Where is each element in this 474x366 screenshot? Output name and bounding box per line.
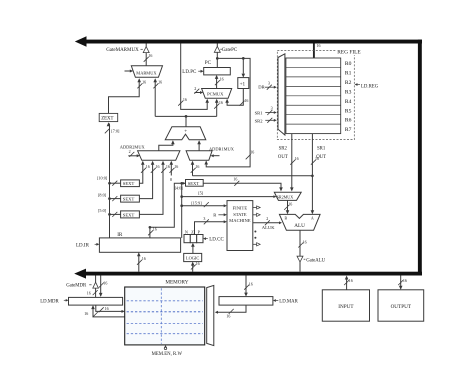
- wire: bus down to OUTPUT: [400, 275, 402, 288]
- svg-text:+: +: [184, 129, 187, 135]
- svg-text:DR: DR: [258, 84, 265, 89]
- component +1 incrementer box: [238, 78, 249, 89]
- svg-text:SEXT: SEXT: [123, 212, 135, 217]
- wire: IR tap vertical for [5] and [15:9]: [181, 183, 183, 238]
- LD.MAR control label: [273, 299, 276, 302]
- node: +1 branch junction: [242, 57, 245, 60]
- svg-text:16: 16: [196, 261, 200, 266]
- wire: bus tap down to PCMUX left input: [181, 43, 208, 109]
- svg-text:16: 16: [349, 278, 353, 283]
- register MDR box: [69, 297, 123, 305]
- svg-text:R3: R3: [345, 89, 352, 95]
- svg-text:[5:0]: [5:0]: [98, 208, 107, 213]
- svg-text:R6: R6: [345, 118, 352, 124]
- svg-text:16: 16: [250, 149, 254, 154]
- svg-text:REG FILE: REG FILE: [337, 49, 361, 55]
- PCMUX select stub with 2: [195, 92, 201, 94]
- svg-text:GateMDR: GateMDR: [66, 283, 87, 288]
- memory address port shape: [207, 285, 214, 345]
- wire: IR[7:0] into ZEXT: [107, 122, 111, 126]
- svg-text:ZEXT: ZEXT: [101, 117, 113, 122]
- wire: NZP to finite state machine (3): [195, 222, 225, 235]
- svg-text:16: 16: [403, 278, 407, 283]
- wire: MARMUX output up through GateMARMUX to bus: [145, 53, 147, 66]
- svg-text:SR2MUX: SR2MUX: [277, 194, 294, 199]
- wire: bus down into register file: [313, 43, 315, 58]
- device INPUT box: [322, 290, 369, 321]
- memory internal dashed line 1: [127, 300, 203, 302]
- svg-text:ADDR1MUX: ADDR1MUX: [209, 146, 235, 151]
- memory internal dashed line 2 (data row): [127, 311, 203, 313]
- slash 16 on MARMUX output: [144, 57, 149, 62]
- wire: IR tap 16-bit up and over to SEXT[4:0] line: [150, 183, 181, 238]
- tri-state buffer GateALU: [297, 256, 303, 262]
- svg-text:MARMUX: MARMUX: [136, 70, 157, 75]
- svg-text:PCMUX: PCMUX: [207, 92, 224, 97]
- wire: PC output up through GatePC to bus: [216, 52, 218, 67]
- svg-text:LD.IR: LD.IR: [76, 243, 90, 248]
- wire: ALUK control to ALU (2): [253, 222, 280, 224]
- FSM control ellipsis dots: [254, 231, 256, 233]
- register PC box: [204, 68, 231, 75]
- svg-text:GatePC: GatePC: [222, 48, 238, 53]
- mux ADDR2MUX: [138, 151, 180, 161]
- memory internal dashed line 4: [127, 333, 203, 335]
- svg-text:SEXT: SEXT: [123, 181, 135, 186]
- register SEXT [5:0] box: [110, 213, 121, 215]
- svg-text:ALUK: ALUK: [262, 225, 275, 230]
- svg-text:OUTPUT: OUTPUT: [391, 304, 412, 310]
- FSM control output stub 1: [253, 207, 257, 209]
- wire: ADDR2MUX output to adder left input: [159, 141, 173, 151]
- svg-text:SR1: SR1: [317, 146, 326, 151]
- svg-text:SR2: SR2: [279, 146, 288, 151]
- wire: MEMORY read data to MDR: [93, 306, 125, 317]
- svg-text:+1: +1: [240, 81, 246, 87]
- logic block LOGIC: [184, 253, 202, 261]
- svg-text:GateALU: GateALU: [306, 258, 325, 263]
- svg-text:[8:0]: [8:0]: [98, 192, 107, 197]
- svg-text:MEMORY: MEMORY: [165, 280, 188, 286]
- finite state machine box: [227, 201, 253, 251]
- wire: bus up into IR bottom: [138, 254, 140, 272]
- svg-text:16: 16: [87, 290, 91, 295]
- svg-text:ALU: ALU: [294, 223, 305, 229]
- svg-text:[4:0]: [4:0]: [175, 186, 184, 191]
- wire: ADDR1MUX output to adder right input: [198, 141, 200, 151]
- svg-text:16: 16: [166, 164, 170, 169]
- svg-text:2: 2: [129, 149, 131, 154]
- svg-text:R7: R7: [345, 127, 352, 133]
- bus: top horizontal segment of system bus: [83, 40, 422, 44]
- alu ALU: [279, 214, 320, 230]
- wire: adder output line to PCMUX middle input: [216, 100, 218, 116]
- svg-text:[7:0]: [7:0]: [111, 129, 120, 134]
- register file write-port column: [278, 54, 285, 135]
- svg-text:16: 16: [219, 100, 223, 105]
- wire: bus up into LOGIC: [192, 263, 194, 272]
- svg-text:16: 16: [303, 239, 307, 244]
- register file dashed enclosure REG FILE: [277, 50, 354, 139]
- wire: IR output vertical to ZEXT and SEXT taps: [109, 124, 111, 238]
- mux PCMUX: [202, 89, 232, 99]
- ADDR2MUX select stub with 2: [128, 155, 137, 157]
- svg-text:16: 16: [249, 282, 253, 287]
- wire: ALU output down through GateALU to bus: [299, 230, 301, 256]
- memory internal dashed line 3: [127, 322, 203, 324]
- wire: MDR write data to MEMORY: [96, 305, 124, 311]
- svg-text:16: 16: [226, 314, 230, 319]
- svg-text:PC: PC: [205, 60, 212, 66]
- svg-text:LD.CC: LD.CC: [209, 237, 224, 242]
- svg-text:16: 16: [84, 311, 88, 316]
- slash 16 on PC-to-ADDR1MUX wire: [246, 154, 251, 159]
- LD.REG control label: [355, 83, 358, 86]
- svg-text:IR: IR: [117, 232, 123, 238]
- svg-text:16: 16: [244, 98, 248, 103]
- svg-text:N: N: [185, 229, 188, 234]
- svg-text:R1: R1: [345, 70, 352, 76]
- svg-text:R2: R2: [345, 80, 352, 86]
- svg-text:16: 16: [317, 43, 321, 48]
- wire: adder output up from adder: [185, 116, 187, 126]
- svg-text:MACHINE: MACHINE: [229, 218, 251, 223]
- wire: SEXT[10:0] to ADDR2MUX input 1: [139, 162, 142, 183]
- bus: left arrowhead of top bus: [75, 36, 87, 46]
- wire: into +1 box: [242, 58, 244, 73]
- register file register stack R0-R7: [286, 58, 341, 134]
- svg-text:SR1: SR1: [255, 111, 264, 116]
- wire: address adder output line to MARMUX right input: [154, 80, 156, 117]
- wire: SR2 OUT down to SR2MUX: [291, 134, 293, 191]
- svg-text:[15:9]: [15:9]: [191, 201, 202, 206]
- wire: bus down into MDR: [100, 275, 102, 295]
- node: SEXT[10:0] tap: [108, 182, 111, 185]
- wire: PC output branch right to +1 and down to ADDR1MUX: [206, 58, 250, 166]
- svg-text:R5: R5: [345, 108, 352, 114]
- node: SEXT[5:0] tap: [108, 213, 111, 216]
- FSM control output stub 3: [253, 243, 257, 245]
- svg-text:[10:0]: [10:0]: [97, 175, 108, 180]
- wire: INPUT up to bus: [346, 277, 348, 290]
- mux SR2MUX: [274, 192, 301, 200]
- node: SR1 branch junction: [311, 174, 314, 177]
- FSM control output stub 2: [253, 214, 257, 216]
- memory internal dashed vertical line: [160, 288, 162, 344]
- register ZEXT box: [99, 113, 118, 121]
- svg-text:3: 3: [268, 81, 270, 86]
- ADDR1MUX select stub from right: [213, 155, 220, 157]
- tri-state buffer GateMARMUX: [143, 47, 149, 53]
- bus: bottom horizontal segment of system bus: [83, 272, 422, 276]
- svg-text:FINITE: FINITE: [233, 205, 248, 210]
- svg-text:16: 16: [103, 280, 107, 285]
- register SEXT [8:0] box: [110, 198, 121, 200]
- wire: SEXT[5:0] to ADDR2MUX input 3: [139, 162, 163, 214]
- svg-text:16: 16: [148, 53, 152, 58]
- wire: bus down into MAR: [245, 275, 247, 295]
- svg-text:16: 16: [142, 80, 146, 85]
- svg-text:LD.PC: LD.PC: [182, 70, 197, 75]
- svg-text:Z: Z: [191, 229, 194, 234]
- svg-text:B: B: [285, 217, 288, 221]
- wire: SR1 OUT down to ALU A and left to ADDR1MUX: [311, 134, 313, 214]
- device OUTPUT box: [378, 290, 424, 321]
- svg-text:16: 16: [174, 164, 178, 169]
- wire: SR2MUX output to ALU B input: [287, 200, 289, 213]
- svg-text:MEM.EN, R.W: MEM.EN, R.W: [152, 352, 183, 357]
- wire: adder output horizontal line: [155, 115, 217, 117]
- tri-state buffer GatePC: [214, 46, 220, 52]
- svg-text:[5]: [5]: [198, 191, 203, 196]
- svg-text:16: 16: [153, 227, 157, 232]
- register SEXT [4:0] box: [182, 182, 186, 184]
- svg-text:16: 16: [142, 256, 146, 261]
- svg-text:2: 2: [194, 86, 196, 91]
- wire: ZEXT output to MARMUX left input: [109, 80, 140, 114]
- mux MARMUX: [131, 66, 162, 78]
- register SEXT [10:0] box: [110, 182, 121, 184]
- svg-text:SEXT: SEXT: [123, 197, 135, 202]
- svg-text:16: 16: [220, 77, 224, 82]
- mux ADDR1MUX: [186, 151, 212, 161]
- svg-text:16: 16: [183, 97, 187, 102]
- wire: PCMUX output to PC: [216, 76, 218, 88]
- wire: SR1 line to ADDR1MUX left input: [192, 162, 194, 176]
- register MAR box: [219, 297, 273, 306]
- svg-text:2: 2: [266, 216, 268, 221]
- MARMUX select stub: [125, 70, 131, 72]
- svg-text:OUT: OUT: [278, 155, 288, 160]
- svg-text:16: 16: [288, 202, 292, 207]
- wire: SEXT[8:0] to ADDR2MUX input 2: [139, 162, 152, 199]
- svg-text:R0: R0: [345, 61, 352, 67]
- node: SEXT[8:0] tap: [108, 197, 111, 200]
- wire: IR[15:9] to finite state machine: [180, 204, 183, 207]
- svg-text:ADDR2MUX: ADDR2MUX: [120, 145, 146, 150]
- svg-text:16: 16: [156, 164, 160, 169]
- svg-text:16: 16: [233, 177, 237, 182]
- svg-text:A: A: [311, 217, 314, 221]
- register IR box: [99, 238, 180, 252]
- svg-text:16: 16: [158, 80, 162, 85]
- bus: right vertical segment of system bus: [418, 40, 422, 276]
- svg-text:3: 3: [203, 216, 205, 221]
- wire: LOGIC output up to NZP: [192, 244, 194, 253]
- svg-text:16: 16: [315, 156, 319, 161]
- svg-text:16: 16: [195, 164, 199, 169]
- node: SEXT[4:0] input junction: [180, 182, 183, 185]
- LD.CC control label: [203, 237, 206, 240]
- address adder (+): [165, 127, 206, 140]
- svg-text:SR2: SR2: [255, 118, 264, 123]
- svg-text:STATE: STATE: [233, 212, 247, 217]
- svg-text:LD.REG: LD.REG: [361, 85, 379, 90]
- svg-text:GateMARMUX: GateMARMUX: [106, 48, 139, 53]
- svg-text:16: 16: [105, 306, 109, 311]
- node: adder output junction: [185, 115, 188, 118]
- wire: IR[5] to SR2MUX select: [180, 195, 183, 198]
- wire: SR1 horizontal to ADDR1MUX: [193, 175, 313, 177]
- svg-text:3: 3: [271, 106, 273, 111]
- svg-text:R4: R4: [345, 99, 352, 105]
- wire: constant 0 to ADDR2MUX input 4: [170, 162, 172, 176]
- svg-text:INPUT: INPUT: [338, 304, 354, 310]
- bus: left arrowhead of bottom bus: [74, 269, 86, 279]
- svg-text:LD.MAR: LD.MAR: [279, 300, 298, 305]
- svg-text:16: 16: [295, 156, 299, 161]
- memory MEMORY box: [125, 287, 205, 345]
- svg-text:LD.MDR: LD.MDR: [40, 300, 59, 305]
- MEM.EN R.W control input: [164, 345, 167, 349]
- node: PC output junction: [216, 57, 219, 60]
- wire: MAR to memory address port: [216, 305, 246, 312]
- svg-text:16: 16: [146, 164, 150, 169]
- wire: +1 output to PCMUX right input: [227, 89, 243, 106]
- wire: SEXT[4:0] output to SR2MUX: [203, 183, 281, 190]
- svg-text:SEXT: SEXT: [188, 181, 200, 186]
